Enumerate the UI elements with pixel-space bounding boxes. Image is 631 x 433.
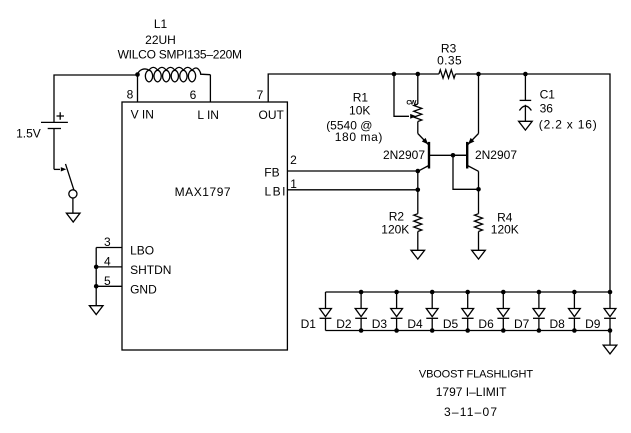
node dot LBI-collector <box>416 188 421 193</box>
diode D3 <box>391 292 403 331</box>
pin label GND <box>130 283 157 297</box>
node dot D6 cathode <box>501 328 506 333</box>
svg-text:2: 2 <box>290 153 297 167</box>
svg-text:0.35: 0.35 <box>437 54 462 68</box>
ground below D9 <box>603 345 617 354</box>
pin number 2 <box>290 153 297 167</box>
diode D1 <box>320 292 332 331</box>
svg-text:3–11–07: 3–11–07 <box>444 405 498 419</box>
svg-text:1.5V: 1.5V <box>16 127 41 141</box>
title VBOOST FLASHLIGHT <box>419 369 533 381</box>
label R2 <box>389 210 405 224</box>
pin number 3 <box>104 235 111 249</box>
svg-text:L1: L1 <box>154 17 168 31</box>
svg-text:D8: D8 <box>550 317 566 331</box>
wire pin 8 V IN <box>137 75 139 103</box>
battery B1 1.5V <box>16 112 68 140</box>
svg-text:2N2907: 2N2907 <box>383 148 425 162</box>
wire battery positive to node A <box>54 75 138 122</box>
pin label FB <box>264 165 279 179</box>
node dot D6 anode <box>501 290 506 295</box>
svg-text:D1: D1 <box>301 317 317 331</box>
label D8 <box>550 317 566 331</box>
svg-text:D4: D4 <box>407 317 423 331</box>
wire pin 4 SHTDN <box>96 266 122 268</box>
svg-text:FB: FB <box>264 165 279 179</box>
ground below C1 <box>519 121 533 130</box>
resistor R4 120K <box>475 214 483 251</box>
label D4 <box>407 317 423 331</box>
svg-text:4: 4 <box>104 255 111 269</box>
switch S1 <box>54 164 77 213</box>
svg-text:120K: 120K <box>381 222 409 236</box>
pin number 4 <box>104 255 111 269</box>
svg-text:36: 36 <box>540 102 554 116</box>
capacitor C1 36 <box>519 74 531 121</box>
transistor Q2 2N2907 <box>453 134 479 172</box>
wire battery negative to switch <box>53 129 55 170</box>
label 180 ma) <box>335 130 383 144</box>
wire pin 5 GND <box>96 285 122 287</box>
pin number 6 <box>190 88 197 102</box>
svg-text:D6: D6 <box>478 317 494 331</box>
label C1 <box>540 88 556 102</box>
resistor R2 120K <box>414 214 422 251</box>
label R3 <box>441 42 457 56</box>
svg-text:D7: D7 <box>514 317 530 331</box>
node dot FB-collector <box>416 169 421 174</box>
svg-text:C1: C1 <box>540 88 556 102</box>
diode D5 <box>462 292 474 331</box>
label (2.2 x 16) <box>539 117 598 131</box>
svg-text:OUT: OUT <box>259 108 285 122</box>
node dot D9 cathode <box>608 328 613 333</box>
title 1797 I-LIMIT <box>436 385 507 399</box>
node dot pin 4 <box>94 265 99 270</box>
svg-text:L IN: L IN <box>197 108 219 122</box>
svg-text:MAX1797: MAX1797 <box>175 185 232 199</box>
label 120K left <box>381 222 409 236</box>
node A junction dot <box>135 72 140 77</box>
label L1 <box>154 17 168 31</box>
diode D7 <box>533 292 545 331</box>
label D2 <box>336 317 352 331</box>
svg-text:5: 5 <box>104 274 111 288</box>
node dot D4 cathode <box>430 328 435 333</box>
node dot base to Q2 collector <box>476 187 481 192</box>
potentiometer R1 10K <box>414 74 422 134</box>
diode D8 <box>569 292 581 331</box>
svg-text:D2: D2 <box>336 317 352 331</box>
svg-text:2N2907: 2N2907 <box>475 148 517 162</box>
node dot D2 cathode <box>359 328 364 333</box>
label D1 <box>301 317 317 331</box>
ground below R4 <box>472 250 486 259</box>
svg-text:D9: D9 <box>585 317 601 331</box>
wire R1 wiper branch <box>394 74 416 119</box>
transistor Q1 2N2907 <box>418 134 466 172</box>
svg-text:LBI: LBI <box>264 185 287 199</box>
label (5540 @ <box>326 118 372 132</box>
wire pin 7 OUT to top rail <box>268 74 439 102</box>
pin number 8 <box>127 88 134 102</box>
svg-text:LBO: LBO <box>130 244 154 258</box>
resistor R3 0.35 <box>439 70 456 78</box>
LED top rail <box>326 291 611 293</box>
pin number 7 <box>257 88 264 102</box>
wire D9 cathode to ground <box>609 331 611 346</box>
wire pin 3 LBO <box>96 247 122 249</box>
label CW <box>406 100 417 107</box>
node dot Q2 emitter <box>476 72 481 77</box>
label MAX1797 <box>175 185 232 199</box>
inductor L1 22UH <box>138 67 211 82</box>
svg-text:(2.2 x 16): (2.2 x 16) <box>539 117 598 131</box>
wire Q2 emitter up <box>478 74 480 134</box>
pin number 5 <box>104 274 111 288</box>
label R4 <box>497 210 513 224</box>
svg-text:1797 I–LIMIT: 1797 I–LIMIT <box>436 385 507 399</box>
node dot C1 <box>523 72 528 77</box>
pin label L IN <box>197 108 219 122</box>
node dot D5 cathode <box>465 328 470 333</box>
wire Q1 collector down <box>417 171 419 213</box>
node dot D8 anode <box>572 290 577 295</box>
node dot D4 anode <box>430 290 435 295</box>
label D9 <box>585 317 601 331</box>
wire LBI pin 1 <box>287 189 417 191</box>
wire left pins bus to ground <box>95 248 97 306</box>
label WILCO SMPI135-220M <box>118 47 242 61</box>
node dot pin 5 <box>94 284 99 289</box>
IC U1 MAX1797 box <box>122 102 287 350</box>
pin label LBO <box>130 244 154 258</box>
title 3-11-07 <box>444 405 498 419</box>
svg-text:10K: 10K <box>349 104 370 118</box>
node dot D8 cathode <box>572 328 577 333</box>
wire top rail right of R3 to right edge <box>455 74 610 292</box>
svg-text:D3: D3 <box>372 317 388 331</box>
diode D2 <box>355 292 367 331</box>
svg-text:VBOOST FLASHLIGHT: VBOOST FLASHLIGHT <box>419 369 533 381</box>
svg-text:GND: GND <box>130 283 157 297</box>
node dot D5 anode <box>465 290 470 295</box>
label D7 <box>514 317 530 331</box>
label 22UH <box>145 33 176 47</box>
pin label LBI <box>264 185 287 199</box>
diode D4 <box>426 292 438 331</box>
label D3 <box>372 317 388 331</box>
node dot base tie <box>451 153 456 158</box>
node dot D3 anode <box>394 290 399 295</box>
label R1 <box>353 90 369 104</box>
svg-text:8: 8 <box>127 88 134 102</box>
wire pin 6 L IN <box>209 75 211 102</box>
svg-text:7: 7 <box>257 88 264 102</box>
svg-text:R1: R1 <box>353 90 369 104</box>
label D5 <box>443 317 459 331</box>
svg-text:120K: 120K <box>491 222 519 236</box>
svg-text:D5: D5 <box>443 317 459 331</box>
node dot D7 cathode <box>537 328 542 333</box>
label 36 <box>540 102 554 116</box>
label D6 <box>478 317 494 331</box>
label 0.35 <box>437 54 462 68</box>
svg-text:WILCO SMPI135–220M: WILCO SMPI135–220M <box>118 47 242 61</box>
label 120K right <box>491 222 519 236</box>
node dot R1 top <box>416 72 421 77</box>
label 2N2907 left <box>383 148 425 162</box>
svg-text:6: 6 <box>190 88 197 102</box>
ground below R2 <box>411 250 425 259</box>
svg-text:22UH: 22UH <box>145 33 176 47</box>
node dot D2 anode <box>359 290 364 295</box>
svg-text:3: 3 <box>104 235 111 249</box>
wire FB pin 2 <box>287 170 417 172</box>
pin label SHTDN <box>130 263 171 277</box>
node dot D7 anode <box>537 290 542 295</box>
pin label OUT <box>259 108 285 122</box>
svg-text:180 ma): 180 ma) <box>335 130 383 144</box>
ground below left pins <box>89 306 103 315</box>
diode D9 <box>604 292 616 331</box>
wire base tie <box>453 155 479 189</box>
node dot D3 cathode <box>394 328 399 333</box>
ground below switch <box>66 213 80 222</box>
label 2N2907 right <box>475 148 517 162</box>
svg-text:V IN: V IN <box>131 108 154 122</box>
diode D6 <box>497 292 509 331</box>
pin label V IN <box>131 108 154 122</box>
label 10K <box>349 104 370 118</box>
wire Q2 collector down <box>478 171 480 213</box>
node dot wiper branch <box>392 72 397 77</box>
pin number 1 <box>290 177 297 191</box>
LED bottom rail <box>326 330 611 332</box>
svg-text:SHTDN: SHTDN <box>130 263 171 277</box>
svg-text:1: 1 <box>290 177 297 191</box>
node dot D9 anode <box>608 290 613 295</box>
